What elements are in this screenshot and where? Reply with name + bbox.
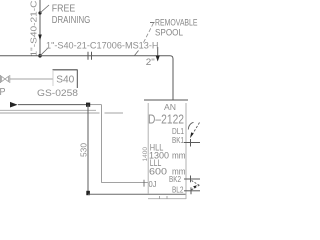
svg-text:FREE: FREE [52,4,76,15]
svg-text:530: 530 [79,143,89,157]
svg-text:1400: 1400 [142,147,149,162]
svg-text:S40: S40 [56,75,74,86]
svg-text:REMOVABLE: REMOVABLE [155,18,198,28]
svg-text:GS-0258: GS-0258 [37,88,78,99]
svg-text:BL2: BL2 [172,185,184,195]
svg-text:DRAINING: DRAINING [52,15,91,26]
svg-text:1"-S40-21-C: 1"-S40-21-C [28,1,38,57]
svg-text:2": 2" [146,57,155,67]
svg-text:SPOOL: SPOOL [155,28,183,38]
svg-text:D–2122: D–2122 [148,113,184,127]
svg-text:AN: AN [164,103,176,112]
svg-text:BK1: BK1 [172,135,184,145]
svg-text:BK2: BK2 [169,174,181,184]
svg-text:0J: 0J [149,179,157,189]
svg-text:mm: mm [172,150,186,161]
svg-text:1"-S40-21-C17006-MS13-H: 1"-S40-21-C17006-MS13-H [46,41,159,51]
svg-text:P: P [0,87,6,98]
svg-text:600: 600 [149,166,167,177]
